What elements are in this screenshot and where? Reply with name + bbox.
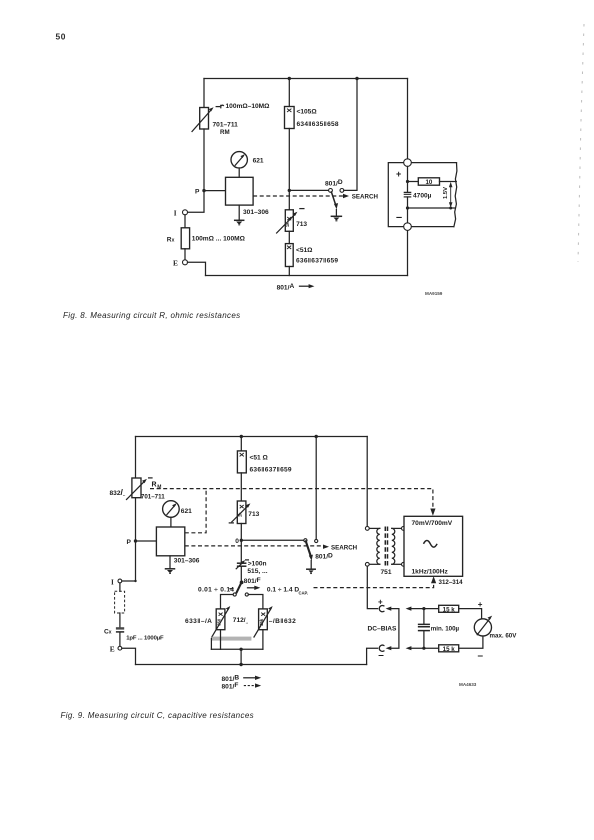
svg-text:634‖635‖658: 634‖635‖658 xyxy=(297,121,339,128)
resistor Rx xyxy=(181,228,189,249)
wire: right contact to trimmer 712 xyxy=(248,595,263,609)
wire: P to box xyxy=(136,540,157,542)
wire: fig8 left vertical top to RM xyxy=(203,79,205,108)
wire: to resistor 10 xyxy=(408,181,419,183)
wire: node 0 down to variable capacitor xyxy=(240,540,242,563)
transformer secondary terminals xyxy=(402,527,406,531)
battery - terminal xyxy=(404,223,412,231)
svg-text:801/F: 801/F xyxy=(222,682,239,690)
wire: left contact to trimmer 633 xyxy=(221,595,234,609)
switch 801/F contacts xyxy=(233,593,236,596)
svg-text:701–711: 701–711 xyxy=(141,493,165,500)
battery block outline (torn right edge) xyxy=(388,163,456,227)
svg-text:+: + xyxy=(396,169,401,179)
wire: fig8 top bus xyxy=(204,78,408,80)
wire: Cx to E xyxy=(119,633,121,647)
meter 621 xyxy=(231,152,247,168)
svg-text:RM: RM xyxy=(220,129,230,136)
wire: resistor 10 to torn edge xyxy=(440,181,457,183)
dashed measuring line from box to SEARCH xyxy=(253,195,343,197)
resistor 15k bottom xyxy=(439,645,459,652)
wire: fig9 top bus xyxy=(136,436,368,438)
capacitor Cx plates xyxy=(116,627,124,629)
svg-text:50: 50 xyxy=(56,32,67,42)
wire: Rx to E xyxy=(184,249,186,260)
page right-edge scan artifact xyxy=(578,24,584,262)
svg-text:–: – xyxy=(378,650,384,661)
node top bus x241.3 xyxy=(240,435,243,438)
wire: switch arm to ground xyxy=(335,210,337,216)
wire: top bus down to resistor 51 fig9 xyxy=(240,437,242,451)
resistor <51 Ohm 636/637/659 fig9 xyxy=(237,451,246,473)
node 801/F xyxy=(240,581,244,585)
svg-text:0.1 ÷ 1.4 D: 0.1 ÷ 1.4 D xyxy=(267,586,299,593)
transformer secondary coil xyxy=(392,528,395,564)
svg-text:100mΩ–10MΩ: 100mΩ–10MΩ xyxy=(226,103,271,110)
node 0 xyxy=(240,539,243,542)
svg-text:P: P xyxy=(127,539,132,546)
Cx impedance dashed box xyxy=(119,583,121,591)
svg-text:Fig. 8. Measuring circuit R, o: Fig. 8. Measuring circuit R, ohmic resis… xyxy=(63,311,241,320)
svg-text:712/..: 712/.. xyxy=(233,617,248,625)
svg-text:0: 0 xyxy=(235,538,239,545)
wire: meter stem xyxy=(238,168,240,177)
svg-text:<105Ω: <105Ω xyxy=(297,109,318,116)
capacitor 4700u xyxy=(404,192,412,194)
svg-text:–: – xyxy=(478,651,484,662)
svg-text:+: + xyxy=(478,600,483,609)
wire: capacitor to switch node 801/F xyxy=(240,566,242,582)
svg-text:713: 713 xyxy=(248,511,259,518)
node on top bus at x357 xyxy=(355,77,358,80)
wire: RM to node P xyxy=(135,498,137,582)
wire: node to switch 801/D xyxy=(289,189,328,191)
svg-text:832/..: 832/.. xyxy=(110,487,126,497)
dashed gang line RM to source box xyxy=(150,489,433,508)
wire: meter stem fig9 xyxy=(170,517,172,527)
trimmer 633/A xyxy=(216,609,225,630)
svg-text:SEARCH: SEARCH xyxy=(352,194,379,201)
svg-text:Cx: Cx xyxy=(104,628,112,635)
resistor RM 701-711 (adjustable) xyxy=(132,478,141,498)
wire: E to bottom bus fig9 xyxy=(122,648,136,664)
wire: I to left vertical xyxy=(122,580,136,582)
transformer core xyxy=(384,527,386,567)
switch 801/F arm xyxy=(237,583,242,593)
resistor 15k top xyxy=(439,605,459,612)
trimmer 712/B xyxy=(259,609,268,630)
sine symbol xyxy=(424,541,438,548)
node top bus x315.6 xyxy=(315,435,318,438)
svg-text:1.5V: 1.5V xyxy=(443,187,449,199)
node P xyxy=(202,189,205,192)
svg-text:DC–BIAS: DC–BIAS xyxy=(368,625,398,632)
terminal E xyxy=(183,260,188,265)
svg-text:633‖–/A: 633‖–/A xyxy=(185,618,212,625)
resistor <51 Ohm 636/637/659 xyxy=(285,244,293,267)
svg-text:1pF ... 1000µF: 1pF ... 1000µF xyxy=(126,635,164,641)
svg-text:P: P xyxy=(195,189,200,196)
arrow of adjustable resistor 701-711 xyxy=(192,110,211,132)
wire: P to amplifier box xyxy=(204,190,226,192)
svg-text:MA4633: MA4633 xyxy=(459,682,477,687)
svg-text:MA9159: MA9159 xyxy=(425,291,443,296)
gang coupling band xyxy=(211,637,251,641)
terminal E fig9 xyxy=(118,646,122,650)
dashed link box to RM line xyxy=(185,489,206,533)
amplifier box 301-306 xyxy=(226,177,254,205)
wire: fig9 bottom bus xyxy=(136,664,367,666)
dashed measuring line to SEARCH fig9 xyxy=(185,545,324,547)
svg-text:515, ...: 515, ... xyxy=(247,568,267,575)
amplifier box 301-306 fig9 xyxy=(156,527,184,556)
svg-text:70mV/700mV: 70mV/700mV xyxy=(412,520,453,527)
wire: resistor 51 to trimmer 713 fig9 xyxy=(240,473,242,501)
svg-text:801/D: 801/D xyxy=(325,179,343,187)
svg-text:min. 100µ: min. 100µ xyxy=(431,625,460,632)
svg-text:4700µ: 4700µ xyxy=(413,193,432,200)
svg-text:15 k: 15 k xyxy=(443,646,456,653)
svg-text:301–306: 301–306 xyxy=(243,209,269,216)
svg-text:801/F: 801/F xyxy=(244,577,261,585)
wire: top bus corner down to transformer primary xyxy=(366,437,368,527)
svg-text:I: I xyxy=(174,210,177,218)
trimmer 713 fig9 (1k) xyxy=(237,501,246,524)
svg-text:0.01 ÷ 0.14: 0.01 ÷ 0.14 xyxy=(198,586,234,593)
dimension arrow 1.5V xyxy=(449,207,452,210)
svg-text:M: M xyxy=(157,484,161,490)
ground of switch 801/D fig9 xyxy=(307,568,315,570)
wire: fig9 left vertical to RM xyxy=(135,437,137,479)
resistor 10 xyxy=(418,178,439,185)
svg-text:312–314: 312–314 xyxy=(439,579,464,586)
svg-text:15 k: 15 k xyxy=(443,606,456,613)
plug arrows right side xyxy=(406,607,412,611)
terminal I xyxy=(183,210,188,215)
wire: 15k to voltmeter + xyxy=(459,609,482,619)
wire: trimmer bottoms common rail xyxy=(220,630,222,650)
svg-text:<51 Ω: <51 Ω xyxy=(250,454,269,461)
wire: common rail down to bottom bus xyxy=(240,649,242,664)
ground below box fig9 xyxy=(169,556,171,568)
svg-text:621: 621 xyxy=(253,158,264,165)
node battery - junction xyxy=(406,206,409,209)
svg-text:–/B‖632: –/B‖632 xyxy=(269,618,296,625)
svg-text:636‖637‖659: 636‖637‖659 xyxy=(296,258,338,265)
meter 621 fig9 xyxy=(163,501,180,518)
svg-text:CAP.: CAP. xyxy=(299,590,308,595)
wire: battery inner vertical xyxy=(407,166,409,191)
ground of switch 801/D xyxy=(331,215,341,217)
svg-text:–: – xyxy=(396,212,402,224)
capacitor min 100u xyxy=(423,609,425,624)
jack - (DC-BIAS) xyxy=(379,645,384,651)
wire: resistor 105 to trimmer 713 xyxy=(288,129,290,210)
wire: switch arm to ground fig9 xyxy=(310,561,312,569)
svg-text:1kHz/100Hz: 1kHz/100Hz xyxy=(412,568,449,575)
resistor R-M 701-711 (adjustable) xyxy=(200,108,209,130)
node junction branch/switch xyxy=(288,189,291,192)
wire: right contact up to top bus fig9 xyxy=(315,437,317,540)
svg-text:R: R xyxy=(152,481,157,488)
svg-text:301–306: 301–306 xyxy=(174,557,200,564)
node on top bus at x289.5 xyxy=(288,77,291,80)
wire: transformer primary bottom down to DC-BIAS jack xyxy=(367,566,377,608)
wire: bottom bus up to battery minus terminal xyxy=(407,230,409,275)
ground below box 301-306 xyxy=(238,205,240,220)
svg-text:751: 751 xyxy=(381,569,392,576)
svg-text:801/D: 801/D xyxy=(315,552,333,560)
svg-text:max. 60V: max. 60V xyxy=(490,633,518,640)
svg-text:SEARCH: SEARCH xyxy=(331,544,358,551)
node trimmer common xyxy=(239,648,242,651)
svg-text:10: 10 xyxy=(425,179,432,186)
svg-text:E: E xyxy=(110,645,115,654)
svg-text:636‖637‖659: 636‖637‖659 xyxy=(250,466,292,473)
wire: I to Rx xyxy=(184,215,186,228)
svg-text:801/A: 801/A xyxy=(277,283,295,291)
resistor <105 Ohm 634/635/658 xyxy=(285,107,295,129)
node P fig9 xyxy=(134,539,137,542)
node battery + junction xyxy=(406,180,409,183)
transformer primary coil xyxy=(370,527,380,529)
switch 801/D fig9 xyxy=(304,539,307,542)
wire: trimmer to resistor 51 xyxy=(288,231,290,243)
variable capacitor >100n 515 xyxy=(238,562,246,564)
transformer 751 primary terminals xyxy=(365,527,369,531)
trimmer 713 (1k) xyxy=(285,210,293,232)
svg-text:Rx: Rx xyxy=(167,237,175,244)
svg-text:701–711: 701–711 xyxy=(213,122,239,129)
wire: top bus corner down to battery + xyxy=(407,79,409,159)
voltmeter max 60V xyxy=(474,619,491,636)
battery + terminal xyxy=(404,159,412,167)
svg-text:<51Ω: <51Ω xyxy=(296,247,313,254)
terminal I fig9 xyxy=(118,579,122,583)
wire: trimmer 713 to node 0 xyxy=(240,524,242,541)
wire: P vertical down to I corner xyxy=(188,191,205,213)
svg-text:>100n: >100n xyxy=(248,560,267,567)
svg-text:Fig. 9. Measuring circuit C, c: Fig. 9. Measuring circuit C, capacitive … xyxy=(61,711,254,720)
wire: right switch contact up to top bus xyxy=(344,79,357,191)
wire: E to bottom bus xyxy=(188,262,206,275)
svg-text:100mΩ ... 100MΩ: 100mΩ ... 100MΩ xyxy=(192,236,246,243)
dashed line DCAP to source box bottom xyxy=(314,582,434,588)
wire: battery inner bottom rail xyxy=(408,207,456,209)
source box 312-314 xyxy=(404,516,463,576)
wire: voltmeter - to 15k bottom xyxy=(459,636,483,648)
wire: fig8 bottom bus xyxy=(206,275,408,277)
wire: top bus down to resistor 105 xyxy=(288,79,290,107)
svg-text:713: 713 xyxy=(296,221,307,228)
svg-text:E: E xyxy=(173,258,178,267)
wire: RM bottom to node P xyxy=(203,129,205,191)
svg-text:621: 621 xyxy=(181,508,192,515)
svg-text:I: I xyxy=(111,579,114,587)
wire: node 0 to switch 801/D fig9 xyxy=(241,539,303,541)
wire: resistor 51 to bottom bus xyxy=(288,267,290,276)
